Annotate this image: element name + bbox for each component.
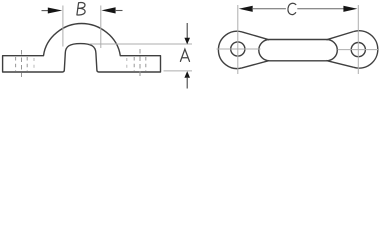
label A [180, 49, 189, 61]
dimension C arrow left [239, 6, 253, 12]
dimension C extension line right / hole vertical center line [357, 5, 359, 74]
label B [77, 3, 85, 15]
dimension A extension line lower [164, 70, 193, 72]
dimension B arrow left [48, 8, 63, 14]
dimension A arrow up [184, 71, 190, 78]
center line right hole horizontal [338, 49, 379, 51]
hidden hole line left pad right edge [26, 57, 28, 71]
ridge line upper right [326, 32, 353, 40]
ridge line lower left [242, 61, 269, 68]
center line left hole horizontal [217, 48, 261, 50]
hidden hole line right pad right edge [145, 57, 147, 71]
dimension B leader left [42, 10, 50, 12]
dimension A line upper [186, 23, 188, 39]
top view left hole [231, 42, 245, 56]
dimension B extension line left [62, 6, 64, 47]
dimension C arrow right [343, 6, 357, 12]
ridge line lower right [326, 61, 353, 68]
dimension A line lower [186, 77, 188, 89]
hidden line right leg [126, 58, 128, 72]
top view left pad [218, 31, 242, 68]
hidden line left leg [33, 58, 35, 72]
ridge line upper left [242, 32, 269, 40]
dimension B arrow right [101, 7, 115, 13]
top view right hole [351, 43, 365, 57]
dimension C extension line left / hole vertical center line [237, 5, 239, 74]
eye strap front outline [3, 24, 161, 73]
hidden hole line right pad [133, 57, 135, 71]
dimension C line left [252, 8, 286, 10]
label C [288, 3, 296, 14]
dimension C line right [297, 8, 345, 10]
dimension B extension line right [100, 6, 102, 49]
top view right pad [354, 31, 378, 68]
dimension A arrow down [184, 38, 190, 45]
hidden hole line left pad [15, 57, 17, 71]
top view crown stadium [259, 40, 338, 61]
dimension B leader right [115, 10, 123, 12]
dimension A extension line upper [90, 43, 193, 45]
center line left hole [21, 50, 23, 79]
center line right hole [139, 49, 141, 79]
